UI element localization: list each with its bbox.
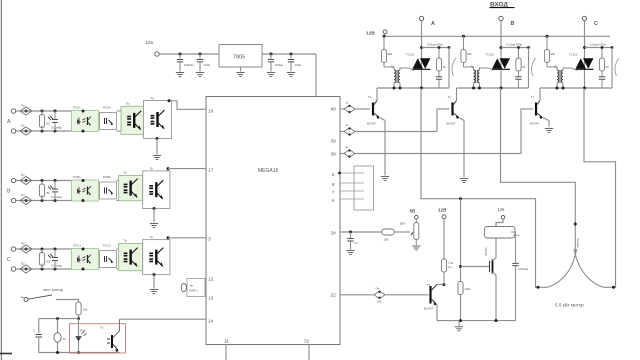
svg-text:14: 14 [208, 319, 214, 325]
node 12V dropper C [546, 35, 549, 38]
mosfet VT1 IRF540 [484, 247, 493, 274]
ground C1 [176, 73, 184, 77]
arc mark snubber A [452, 58, 456, 76]
svg-text:Тр: Тр [471, 65, 475, 69]
capacitor C relay [511, 232, 529, 321]
svg-text:16: 16 [208, 109, 214, 115]
svg-text:A: A [431, 21, 435, 27]
wire to mcu pin 3 [167, 236, 207, 239]
svg-text:0,05мкф: 0,05мкф [51, 126, 63, 130]
wire B top rail [16, 180, 74, 182]
wire loop top [39, 318, 79, 320]
wire pin14 [119, 318, 206, 320]
driver TrBa green box [119, 171, 143, 201]
resistor Rg 100k [458, 282, 471, 321]
svg-text:0,01мк 630в: 0,01мк 630в [427, 43, 443, 47]
resistor RB1 across rails [39, 181, 44, 201]
wire phase B to motor [501, 88, 576, 252]
capacitor CB2 across rails [52, 181, 58, 201]
wire pin 11 down [225, 345, 227, 360]
fuse FC2 bottom diamond [20, 262, 32, 274]
wire B bottom rail [16, 200, 74, 202]
svg-text:12в: 12в [498, 207, 506, 212]
node snubber rail end [448, 46, 451, 49]
svg-text:0,1: 0,1 [354, 241, 358, 245]
node at C2 [199, 53, 202, 56]
svg-text:Пр: Пр [21, 193, 25, 197]
wire A bottom rail [16, 130, 74, 132]
terminal 5V [415, 215, 419, 222]
svg-text:Тр: Тр [391, 65, 395, 69]
wire switch to resistor [56, 300, 79, 304]
wire to mcu pin 16 [168, 99, 207, 109]
wire C top rail [16, 248, 74, 250]
svg-text:1000мк: 1000мк [184, 63, 195, 67]
wire rails into TrA boxes [117, 111, 122, 131]
ground TrB [150, 209, 158, 228]
wire collector T4 [437, 284, 444, 286]
terminal 12V rail [383, 30, 387, 34]
svg-text:MEGA16: MEGA16 [258, 168, 279, 174]
svg-text:12В: 12В [438, 208, 447, 213]
terminal phase B [499, 16, 503, 20]
svg-text:360: 360 [467, 52, 472, 56]
terminal A top [11, 109, 15, 113]
svg-text:C: C [7, 257, 11, 263]
fuse FA2 bottom diamond [20, 124, 32, 136]
resistor RCs snubber [599, 48, 609, 72]
fuse FC1 top diamond [20, 242, 32, 254]
node at TrA bottom [156, 137, 159, 140]
node snubber R junction B [517, 46, 520, 49]
driver TrCb box [143, 235, 170, 275]
terminal phase A [419, 16, 423, 20]
node snubber rail end [527, 46, 530, 49]
svg-text:A: A [7, 119, 11, 125]
ground pot [412, 240, 420, 251]
node divider top [459, 197, 462, 200]
capacitor C1 [177, 54, 194, 72]
ground 7805 [236, 67, 244, 77]
svg-text:РСA2: РСA2 [103, 106, 111, 110]
triac VSC [569, 53, 594, 70]
svg-text:22: 22 [331, 293, 337, 299]
node phase C top rail [583, 46, 586, 49]
node loop top [56, 317, 59, 320]
svg-text:РСC1: РСC1 [73, 244, 81, 248]
svg-text:вкл. мотор: вкл. мотор [44, 287, 64, 292]
optocoupler PCA1 green box [72, 106, 99, 133]
svg-text:38: 38 [331, 152, 337, 158]
wire snubber right A [448, 48, 450, 89]
wire gate A [400, 68, 414, 71]
svg-text:Тр: Тр [124, 239, 128, 243]
svg-text:100н: 100н [204, 63, 211, 67]
phototransistor PC4 [107, 319, 119, 352]
capacitor CB1 marks [47, 186, 63, 200]
svg-text:Тр: Тр [126, 101, 130, 105]
wire collector T2 [456, 88, 458, 101]
battery/cell component [54, 319, 66, 353]
svg-text:РС4: РС4 [80, 329, 86, 333]
svg-text:обмотка: обмотка [576, 238, 580, 248]
svg-text:3: 3 [208, 237, 211, 243]
node dots rails B [41, 179, 57, 202]
terminal C bottom [11, 267, 15, 271]
ground emitter T2 [460, 179, 468, 183]
capacitor C34 [347, 232, 358, 250]
svg-text:12В: 12В [366, 31, 375, 37]
wire phase A to motor [421, 88, 547, 287]
svg-text:Тр: Тр [150, 166, 154, 170]
wire phase A vertical [421, 21, 423, 88]
svg-text:С: С [33, 329, 35, 333]
svg-text:39: 39 [331, 139, 337, 145]
node at TrC bottom [153, 273, 156, 276]
svg-text:39: 39 [443, 65, 447, 69]
wire gate [461, 266, 490, 268]
ground bottom rail [455, 321, 463, 331]
ground C2 [196, 73, 204, 77]
svg-text:реле: реле [513, 233, 520, 237]
nodes loop bottom [56, 351, 80, 354]
ground emitter T1 [381, 177, 389, 181]
wire source [493, 272, 497, 321]
svg-text:Тa: Тa [368, 95, 372, 99]
node gate tap [459, 265, 462, 268]
wire snubber top rail B [501, 47, 529, 49]
node at C1 [179, 53, 182, 56]
wire bottom rail [437, 320, 516, 322]
transformer TrA gate [391, 65, 400, 89]
node dots rails A [41, 110, 57, 133]
svg-text:РСB1: РСB1 [73, 175, 81, 179]
svg-text:Тb: Тb [448, 95, 452, 99]
wire snubber right C [611, 48, 613, 89]
svg-text:ВС547: ВС547 [530, 122, 539, 126]
wire input to 7805 [159, 53, 219, 55]
resistor RBs snubber [516, 48, 526, 72]
transistor T3 BC547 [530, 95, 543, 126]
driver TrAb box [144, 96, 172, 139]
node at TrB bottom [153, 207, 156, 210]
svg-text:5В: 5В [410, 209, 417, 214]
resistor network pin 40 [340, 101, 357, 114]
svg-text:360: 360 [551, 52, 556, 56]
driver TrCa green box [119, 239, 143, 271]
svg-text:Тр: Тр [150, 235, 154, 239]
wire snubber top rail A [422, 47, 450, 49]
svg-text:ВС547: ВС547 [447, 122, 456, 126]
svg-text:34: 34 [331, 231, 337, 237]
svg-text:Тр: Тр [100, 326, 104, 330]
wire base T3 [521, 109, 533, 154]
triac VSB [486, 53, 511, 70]
terminal A bottom [11, 129, 15, 133]
wire snubber right B [528, 48, 530, 89]
motor M1 windings [547, 249, 604, 287]
svg-text:Пр: Пр [21, 242, 25, 246]
node snubber R junction A [438, 46, 441, 49]
node pin34 [349, 231, 352, 234]
svg-text:0,01мк 630в: 0,01мк 630в [507, 43, 523, 47]
ground C4 [287, 73, 295, 77]
resistor network pin 38 [340, 145, 357, 158]
ground emitter T3 [545, 129, 553, 133]
svg-text:Тр: Тр [554, 65, 558, 69]
svg-text:Пр: Пр [21, 262, 25, 266]
wire loop bottom [39, 352, 120, 354]
page border bottom-left stub [0, 353, 12, 355]
microcontroller U1 MEGA16 [206, 97, 340, 345]
node 12V dropper A [383, 35, 386, 38]
resistor RCd 360 [544, 36, 557, 70]
optocoupler PCC2 box [100, 244, 117, 268]
svg-text:31: 31 [304, 339, 310, 345]
svg-text:10К: 10К [384, 238, 389, 242]
nodes bottom rail A [393, 87, 424, 90]
nodes bottom rail [459, 319, 498, 322]
ground C34 [346, 251, 354, 255]
wire C bottom rail [16, 268, 74, 270]
wire vcc to mcu top [315, 54, 317, 97]
ground C3 [267, 73, 275, 77]
fuse FB2 bottom diamond [20, 193, 32, 205]
svg-text:39: 39 [606, 65, 610, 69]
resistor R34 10k [382, 229, 394, 242]
svg-text:РСB2: РСB2 [103, 175, 111, 179]
svg-text:B: B [511, 21, 515, 27]
node at C4 [290, 53, 293, 56]
svg-text:РСA1: РСA1 [73, 106, 81, 110]
svg-text:12: 12 [208, 277, 214, 283]
wire pin 31 down [308, 345, 310, 360]
resistor R12 7.5k [441, 259, 453, 285]
svg-text:100мк: 100мк [275, 63, 284, 67]
svg-text:7805: 7805 [233, 55, 245, 61]
wire section bottom rail B [457, 87, 529, 89]
svg-text:ТС122: ТС122 [486, 53, 495, 57]
optocoupler PCB2 box [100, 175, 117, 199]
svg-text:Т4: Т4 [427, 283, 431, 287]
capacitor C3 [268, 54, 284, 72]
svg-text:13: 13 [208, 296, 214, 302]
capacitor CCs snubber [599, 71, 605, 88]
wire to T4 base [386, 294, 429, 296]
svg-text:39: 39 [522, 65, 526, 69]
potentiometer RP1 [400, 222, 419, 240]
wire 7805 output [262, 53, 316, 55]
wire phase C to motor [584, 88, 616, 287]
svg-text:Тр: Тр [151, 96, 155, 100]
capacitor C4 [288, 54, 302, 72]
optocoupler PCA2 box [100, 106, 117, 130]
net label VHOD [490, 2, 515, 9]
svg-text:ВС: ВС [47, 122, 51, 126]
wire gate B [480, 68, 494, 71]
wire gate C [563, 68, 577, 71]
svg-text:0,05мкф: 0,05мкф [51, 264, 63, 268]
node 12V dropper B [462, 35, 465, 38]
svg-text:B: B [7, 189, 11, 195]
transistor T2 BC547 [447, 95, 460, 126]
triac VSA [406, 53, 431, 70]
wire pin39 run [357, 131, 438, 133]
capacitor CA2 across rails [52, 111, 58, 131]
wire rails into TrC boxes [117, 249, 119, 269]
resistor RAs snubber [436, 48, 446, 72]
resistor RBd 360 [461, 36, 474, 70]
node snubber R junction C [601, 46, 604, 49]
svg-text:Тр: Тр [124, 171, 128, 175]
node sw divider [77, 317, 80, 320]
switch SW1 [21, 295, 52, 302]
node snubber rail end [611, 46, 614, 49]
capacitor CBs snubber [515, 71, 521, 88]
resistor RC1 across rails [39, 249, 44, 269]
terminal 12V aux [442, 215, 446, 259]
wire collector T1 [376, 88, 378, 101]
wire loop left with cap [33, 319, 42, 353]
fuse FA1 top diamond [20, 104, 32, 116]
wire pin34 [340, 231, 382, 233]
svg-text:10к: 10к [83, 308, 88, 312]
wire emitter T2 [460, 118, 465, 177]
svg-text:12в: 12в [145, 40, 153, 46]
svg-text:рег: рег [400, 222, 406, 226]
ground TrC [150, 275, 158, 294]
arc mark snubber B [531, 58, 535, 76]
svg-text:Пр: Пр [21, 124, 25, 128]
nodes bottom rail B [472, 87, 503, 90]
wire base T2 [437, 109, 450, 132]
transistor T4 BC547 [424, 283, 437, 311]
capacitor CAs snubber [436, 71, 442, 88]
svg-text:40: 40 [331, 107, 337, 113]
svg-text:16МГц: 16МГц [189, 289, 198, 293]
page border left [0, 0, 2, 360]
optocoupler PC4 red box [70, 324, 126, 353]
svg-text:Пр: Пр [21, 104, 25, 108]
driver TrBb box [143, 166, 170, 208]
wire drain [493, 238, 497, 261]
node dots rails C [41, 248, 57, 271]
svg-text:C: C [594, 21, 598, 27]
wire emitter T1 [380, 118, 385, 176]
resistor RA1 across rails [39, 111, 44, 131]
wire divider vertical [460, 199, 462, 282]
nodes bottom rail C [556, 87, 587, 90]
svg-text:0,05мкф: 0,05мкф [51, 195, 63, 199]
wire phase B vertical [500, 21, 502, 88]
svg-text:17: 17 [208, 168, 214, 174]
resistor RAd 360 [381, 36, 394, 70]
svg-text:ТС122: ТС122 [406, 53, 415, 57]
svg-text:ВС: ВС [47, 260, 51, 264]
wire collector T3 [539, 88, 541, 101]
terminal B bottom [11, 198, 15, 202]
svg-text:5.5 кВт мотор: 5.5 кВт мотор [555, 303, 584, 308]
ground TrA [153, 139, 161, 160]
transistor T1 BC547 [367, 95, 380, 126]
wire section bottom rail A [377, 87, 449, 89]
resistor network pin 39 [340, 123, 357, 136]
crystal Q1 block at pins 12-13 [181, 279, 205, 297]
optocoupler PCC1 green box [72, 244, 99, 271]
transformer TrB gate [471, 65, 480, 89]
terminal 12v relay [496, 216, 505, 227]
node at C3 [270, 53, 273, 56]
wire phase C vertical [584, 21, 586, 88]
svg-text:Пр: Пр [21, 173, 25, 177]
node phase B top rail [500, 46, 503, 49]
node motor center line [574, 223, 577, 226]
driver TrAa green box [121, 101, 147, 134]
capacitor CA1 marks [47, 116, 63, 130]
svg-text:11: 11 [224, 339, 229, 345]
wire to mcu pin 17 [167, 167, 207, 171]
svg-text:360: 360 [388, 52, 393, 56]
svg-text:10Е: 10Е [377, 300, 382, 304]
transformer TrC gate [554, 65, 563, 89]
node collector T4 [443, 283, 446, 286]
svg-text:Пв: Пв [376, 287, 380, 291]
wire emitter T4 down [436, 304, 438, 320]
capacitor CC2 across rails [52, 249, 58, 269]
capacitor CC1 marks [47, 254, 63, 268]
fuse FB1 top diamond [20, 173, 32, 185]
svg-text:0,01мк 630в: 0,01мк 630в [590, 43, 606, 47]
terminal C top [11, 247, 15, 251]
wire section bottom rail C [540, 87, 612, 89]
svg-text:3в: 3в [63, 337, 67, 341]
node motor right [612, 286, 615, 289]
wire 12V rail [385, 34, 610, 37]
svg-text:ТС122: ТС122 [569, 53, 578, 57]
optocoupler PCB1 green box [72, 175, 99, 202]
wire base T1 [356, 108, 370, 110]
wire A top rail [16, 110, 74, 112]
svg-text:ВС547: ВС547 [424, 307, 433, 311]
arc mark snubber C [615, 58, 619, 76]
wire to pot [394, 231, 410, 233]
wire snubber top rail C [585, 47, 613, 49]
node motor left [537, 286, 540, 289]
wire emitter T3 [543, 118, 549, 127]
terminal 12v [155, 52, 159, 56]
svg-text:100к: 100к [465, 287, 472, 291]
node phase A top rail [420, 46, 423, 49]
regulator U2 7805 [219, 45, 262, 68]
wire pin22 [340, 294, 374, 296]
terminal B top [11, 178, 15, 182]
svg-text:100н: 100н [295, 63, 302, 67]
resistor Rsw 10k [76, 302, 88, 319]
svg-text:РСC2: РСC2 [103, 244, 111, 248]
wire rails into TrB boxes [117, 181, 119, 201]
capacitor C2 [197, 54, 211, 72]
svg-text:100мкф: 100мкф [518, 267, 529, 271]
svg-text:IRF540: IRF540 [484, 247, 488, 256]
resistor R22 1k [374, 287, 385, 304]
wire pin38 run [357, 153, 522, 155]
svg-text:ВС: ВС [47, 191, 51, 195]
connector J1 ISP [338, 166, 373, 210]
terminal phase C [582, 16, 586, 20]
svg-text:ВС547: ВС547 [367, 122, 376, 126]
LED chain PC4 [76, 319, 87, 353]
relay K1 coil [485, 227, 520, 239]
